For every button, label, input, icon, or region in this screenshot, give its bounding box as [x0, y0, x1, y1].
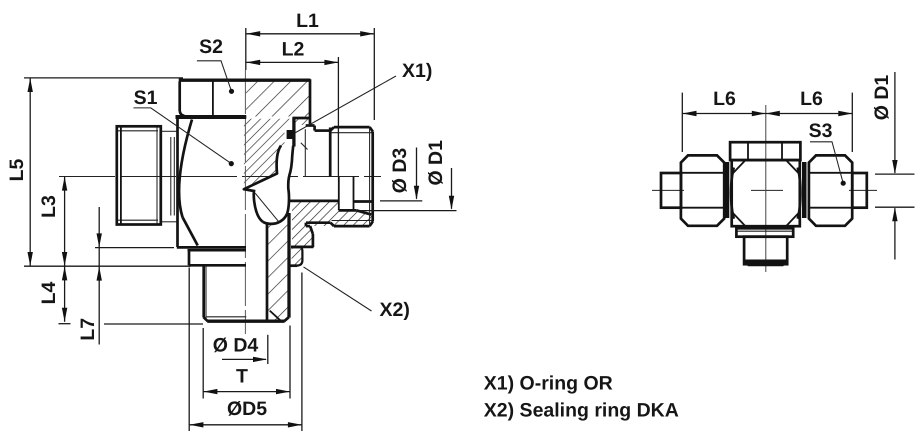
dim ØD5 — [189, 424, 302, 426]
seat cone diagonal edge — [244, 174, 277, 190]
band right edge — [287, 146, 293, 214]
svg-text:L3: L3 — [38, 195, 60, 218]
svg-text:L6: L6 — [800, 88, 823, 110]
right hex nut side view — [809, 155, 852, 225]
leader S2 with dot — [197, 61, 232, 92]
svg-text:T: T — [236, 366, 248, 388]
cross passage bore white (right port, lower half) — [290, 178, 373, 209]
counterbore step edges — [338, 177, 340, 211]
top hex nut side view — [730, 142, 800, 160]
ball arc silhouette — [179, 120, 192, 218]
top hex nut S2 — [179, 79, 311, 82]
band left edge — [277, 146, 281, 174]
dim L3 — [64, 177, 66, 267]
right port end face double line — [371, 132, 374, 222]
left hex nut side view — [681, 155, 724, 225]
left port face line — [173, 137, 175, 216]
svg-text:Ø D3: Ø D3 — [389, 148, 411, 194]
dim L7 (outside arrows) — [98, 207, 100, 345]
body column section under nut — [244, 119, 293, 189]
svg-text:L1: L1 — [296, 10, 319, 32]
svg-text:L5: L5 — [6, 158, 28, 181]
dim L5 — [29, 78, 31, 266]
svg-text:L6: L6 — [713, 88, 736, 110]
ball seat passage band white — [244, 146, 293, 224]
svg-text:S1: S1 — [134, 87, 158, 109]
centerlines — [652, 189, 684, 191]
body cone lower left — [183, 217, 198, 245]
O-ring groove white + X1 o-ring — [285, 126, 294, 144]
left stud thread minor lines — [118, 130, 158, 132]
body top right corner — [293, 117, 311, 120]
svg-text:X2): X2) — [380, 299, 410, 321]
beak left curve — [244, 189, 263, 222]
flange — [177, 246, 246, 249]
svg-text:Ø D4: Ø D4 — [213, 335, 259, 357]
horizontal centerline main axis — [59, 176, 381, 178]
dim L6 left — [682, 113, 766, 115]
svg-text:X2) Sealing ring DKA: X2) Sealing ring DKA — [484, 400, 679, 422]
left tube stub — [661, 173, 681, 208]
left stud port thread outer — [117, 126, 161, 224]
body below passage to flange — [292, 200, 313, 247]
dim L1 — [246, 33, 374, 35]
bolt column right edge at groove — [292, 118, 295, 147]
vertical bore white of bottom stud — [246, 213, 267, 321]
right port thread crest top/bottom with chamfers — [334, 126, 370, 129]
bore wall — [266, 223, 269, 320]
dim L4 — [64, 266, 66, 322]
leader S1 with dot — [134, 108, 232, 164]
right port runout edge — [329, 128, 332, 177]
svg-text:X1) O-ring OR: X1) O-ring OR — [484, 373, 613, 395]
body right edge below stud to flange — [310, 226, 313, 234]
svg-text:ØD5: ØD5 — [227, 398, 267, 420]
body hex flat edge left — [176, 118, 179, 247]
body block — [732, 160, 800, 226]
beak bottom curve — [263, 214, 287, 224]
left washer cone (dark) — [725, 162, 729, 218]
nut S2 sectioned half — [246, 81, 309, 117]
svg-text:L4: L4 — [38, 281, 60, 304]
counterbore bottom — [339, 209, 356, 212]
neck-body step — [306, 124, 315, 127]
body sliver right of shank — [294, 119, 309, 125]
leader X1 — [295, 76, 396, 133]
svg-text:X1): X1) — [402, 60, 432, 82]
dim L6 right — [766, 113, 853, 115]
svg-text:L7: L7 — [77, 318, 99, 341]
dim L2 — [246, 61, 338, 63]
body top face line — [176, 116, 247, 119]
bolt lower stud section band — [267, 214, 289, 321]
inner chamfer diagonal in beak — [255, 193, 278, 221]
bottom flange side view — [736, 228, 793, 236]
svg-text:Ø D1: Ø D1 — [425, 140, 447, 186]
socket flare chamfer — [356, 210, 371, 214]
passage bottom wall — [284, 200, 339, 203]
svg-text:S2: S2 — [199, 36, 223, 58]
leader X2 — [304, 267, 372, 311]
right washer cone (dark) — [802, 162, 807, 218]
right port lower-half section — [306, 201, 373, 226]
svg-text:Ø D1: Ø D1 — [871, 75, 893, 121]
port back chamfer — [301, 143, 308, 150]
right port: neck — [315, 129, 331, 132]
bottom stud — [202, 266, 205, 318]
bottom stud side view — [744, 237, 787, 265]
dim T — [203, 391, 290, 393]
svg-text:L2: L2 — [282, 39, 305, 61]
right tube stub — [852, 173, 867, 208]
svg-text:S3: S3 — [809, 120, 833, 142]
right port thread minor lines — [332, 132, 373, 134]
bottom stud right edge (section, thick) — [287, 213, 290, 318]
port back face line — [304, 129, 306, 176]
vertical centerline main — [244, 70, 246, 334]
X2 sealing ring DKA — [292, 247, 303, 265]
